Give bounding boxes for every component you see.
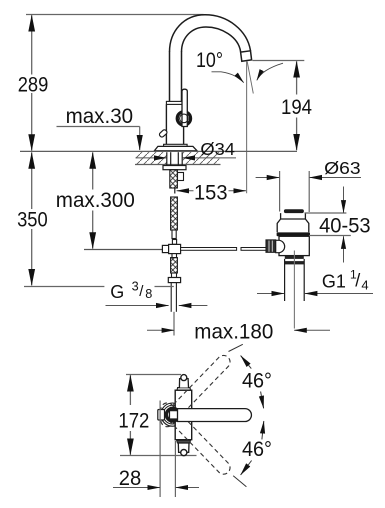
hose end fitting xyxy=(172,230,176,239)
aerator at spout tip xyxy=(241,51,252,62)
top connector band xyxy=(177,388,191,391)
deck hatching right xyxy=(183,152,220,164)
faucet center extension line below tube xyxy=(173,312,175,336)
Ø63 right extension line xyxy=(308,171,310,212)
svg-text:G: G xyxy=(110,282,124,302)
svg-text:10°: 10° xyxy=(196,49,223,72)
faucet body left line xyxy=(165,104,167,144)
10 degree leader with arrow left xyxy=(212,72,244,83)
Ø63 dimension left arrow xyxy=(256,177,280,179)
drain dark band upper xyxy=(285,256,304,259)
dimension max.300 upper segment xyxy=(92,152,94,189)
spout inner curve xyxy=(182,27,241,52)
body bottom flange xyxy=(164,144,188,146)
upper 46 leader arrow to dashed lever xyxy=(241,356,252,369)
side block on shank xyxy=(178,173,184,181)
lever handle top view xyxy=(178,409,252,422)
svg-text:46°: 46° xyxy=(242,369,272,392)
dimension max.180 right arrow xyxy=(294,329,330,331)
194 top extension line xyxy=(253,60,305,62)
temperature tab xyxy=(158,410,165,421)
svg-text:289: 289 xyxy=(18,73,49,96)
dashed lever position down 46 xyxy=(158,400,233,477)
pivot inner circle xyxy=(180,114,189,123)
lever handle bar xyxy=(182,89,187,126)
svg-text:G1: G1 xyxy=(322,272,346,292)
top extension line at spout top xyxy=(26,14,204,16)
base escutcheon xyxy=(154,146,197,150)
pivot middle circle xyxy=(163,405,182,424)
svg-text:max.300: max.300 xyxy=(56,189,135,212)
pop-up rod thin line xyxy=(84,249,162,251)
svg-text:max.30: max.30 xyxy=(66,105,134,128)
svg-text:28: 28 xyxy=(119,467,142,490)
dashed lever position up 46 xyxy=(158,353,233,430)
Ø63 dimension right arrow xyxy=(310,177,362,179)
svg-text:/: / xyxy=(355,271,360,291)
top view body xyxy=(175,390,192,440)
lower 46 leader arrow to dashed lever xyxy=(241,461,252,475)
350 terminus line right part xyxy=(155,286,174,288)
dimension 153 left arrow xyxy=(177,190,194,192)
pivot outer circle xyxy=(161,403,184,426)
G3/8 dimension right arrow xyxy=(179,305,208,307)
lever handle neck xyxy=(170,411,179,419)
svg-text:350: 350 xyxy=(17,209,48,232)
hose lower neck xyxy=(172,273,177,278)
lower 46 leader arrow up to lever xyxy=(262,421,264,439)
faucet body right line xyxy=(183,104,185,144)
pin below coupler xyxy=(172,254,177,258)
dimension 28 left arrow xyxy=(113,487,160,489)
dimension 28 right arrow xyxy=(176,487,199,489)
dimension 350 upper segment xyxy=(31,152,33,209)
G1 1/4 dimension left arrow xyxy=(257,293,284,295)
horizontal pop-up rod to drain part 2 xyxy=(241,248,266,251)
svg-text:Ø34: Ø34 xyxy=(200,139,235,159)
bottom connector circle xyxy=(181,450,187,456)
40-53 up arrow xyxy=(343,236,345,262)
dimension max.300 lower segment xyxy=(92,211,94,249)
350 terminus line left part xyxy=(24,286,104,288)
svg-text:40-53: 40-53 xyxy=(319,214,371,237)
deck hatching left xyxy=(136,152,167,164)
dimension 194 lower segment xyxy=(296,118,298,151)
upper 46 leader arrow down to lever xyxy=(261,392,264,409)
dimension Ø34 arrows xyxy=(136,157,167,159)
spout riser tube left line xyxy=(169,52,171,102)
deck top line xyxy=(20,150,297,152)
bottom connector dark band xyxy=(177,440,191,443)
dimension 153 right arrow xyxy=(229,190,246,192)
drain center line xyxy=(293,251,295,329)
rod coupler block small xyxy=(162,245,168,252)
svg-text:153: 153 xyxy=(194,181,228,204)
40-53 bottom line xyxy=(309,235,351,237)
top connector circle xyxy=(181,375,187,381)
dimension max.180 left arrow xyxy=(147,329,174,331)
drain upper neck xyxy=(281,213,306,219)
lower 46 leader overshoot stroke xyxy=(233,476,246,487)
spout riser tube right line xyxy=(181,52,183,102)
clevis rounded piece xyxy=(276,240,285,252)
drain body xyxy=(279,236,309,255)
mounting nut under deck xyxy=(163,166,186,170)
shank sleeve through deck xyxy=(167,152,182,165)
172 top extension line xyxy=(126,374,181,376)
clevis knurled nut xyxy=(266,240,276,252)
top connector stub xyxy=(179,379,188,388)
drain plug cap xyxy=(284,209,304,213)
10 degree arc with arrow right xyxy=(257,63,283,80)
G3/8 tube right line xyxy=(175,283,177,312)
deck bottom line xyxy=(135,164,221,166)
svg-text:Ø63: Ø63 xyxy=(324,158,361,178)
dimension 289 line upper segment xyxy=(31,15,33,74)
dimension 350 lower segment xyxy=(31,229,33,285)
svg-text:8: 8 xyxy=(145,287,152,301)
pin above coupler xyxy=(172,240,176,245)
drain tailpipe right line xyxy=(303,259,305,301)
lever ball dark ring xyxy=(166,408,179,421)
joint band between riser and body xyxy=(166,101,183,104)
svg-text:max.180: max.180 xyxy=(194,320,273,343)
drain o-ring xyxy=(277,232,310,236)
svg-text:172: 172 xyxy=(118,410,149,433)
10 degree vertical reference line xyxy=(246,62,248,194)
G1 1/4 dimension right arrow xyxy=(305,293,373,295)
threaded shank hatched xyxy=(170,170,178,188)
28 right extension line xyxy=(174,441,176,497)
drain dark band lower xyxy=(284,261,304,264)
172 bottom extension line xyxy=(120,455,197,457)
upper 46 leader overshoot stroke xyxy=(229,344,243,351)
stub below shank xyxy=(174,188,176,194)
leader line under max.30 xyxy=(57,126,140,128)
spout outer curve xyxy=(170,15,251,52)
svg-text:46°: 46° xyxy=(242,438,272,461)
dimension 172 upper segment xyxy=(129,375,131,405)
40-53 down arrow xyxy=(343,187,345,213)
G3/8 nut xyxy=(168,278,180,283)
svg-text:3: 3 xyxy=(132,280,139,294)
bottom connector stub xyxy=(178,443,189,452)
drain tailpipe left line xyxy=(284,259,286,301)
supply hose upper hatched xyxy=(171,197,178,230)
G3/8 tube left line xyxy=(170,283,172,312)
rod coupler block large xyxy=(169,244,181,253)
supply hose lower hatched xyxy=(171,258,178,273)
10 degree tilted line xyxy=(247,62,253,94)
28 left extension line xyxy=(159,401,161,498)
pop-up rod knob xyxy=(159,129,168,138)
horizontal pop-up rod to drain part 1 xyxy=(181,248,237,251)
G3/8 dimension left arrow xyxy=(106,305,169,307)
svg-text:194: 194 xyxy=(281,96,312,119)
dimension 194 upper segment xyxy=(296,61,298,94)
Ø63 left extension line xyxy=(279,171,281,212)
drain flange xyxy=(277,219,309,232)
lever pivot ring xyxy=(177,112,190,125)
svg-text:4: 4 xyxy=(361,277,368,292)
40-53 top line xyxy=(305,212,347,214)
leader arrow max.30 down to deck xyxy=(139,127,141,151)
dimension 172 lower segment xyxy=(129,431,131,455)
clevis knurl highlights xyxy=(269,241,272,252)
dimension 289 line lower segment xyxy=(31,93,33,151)
